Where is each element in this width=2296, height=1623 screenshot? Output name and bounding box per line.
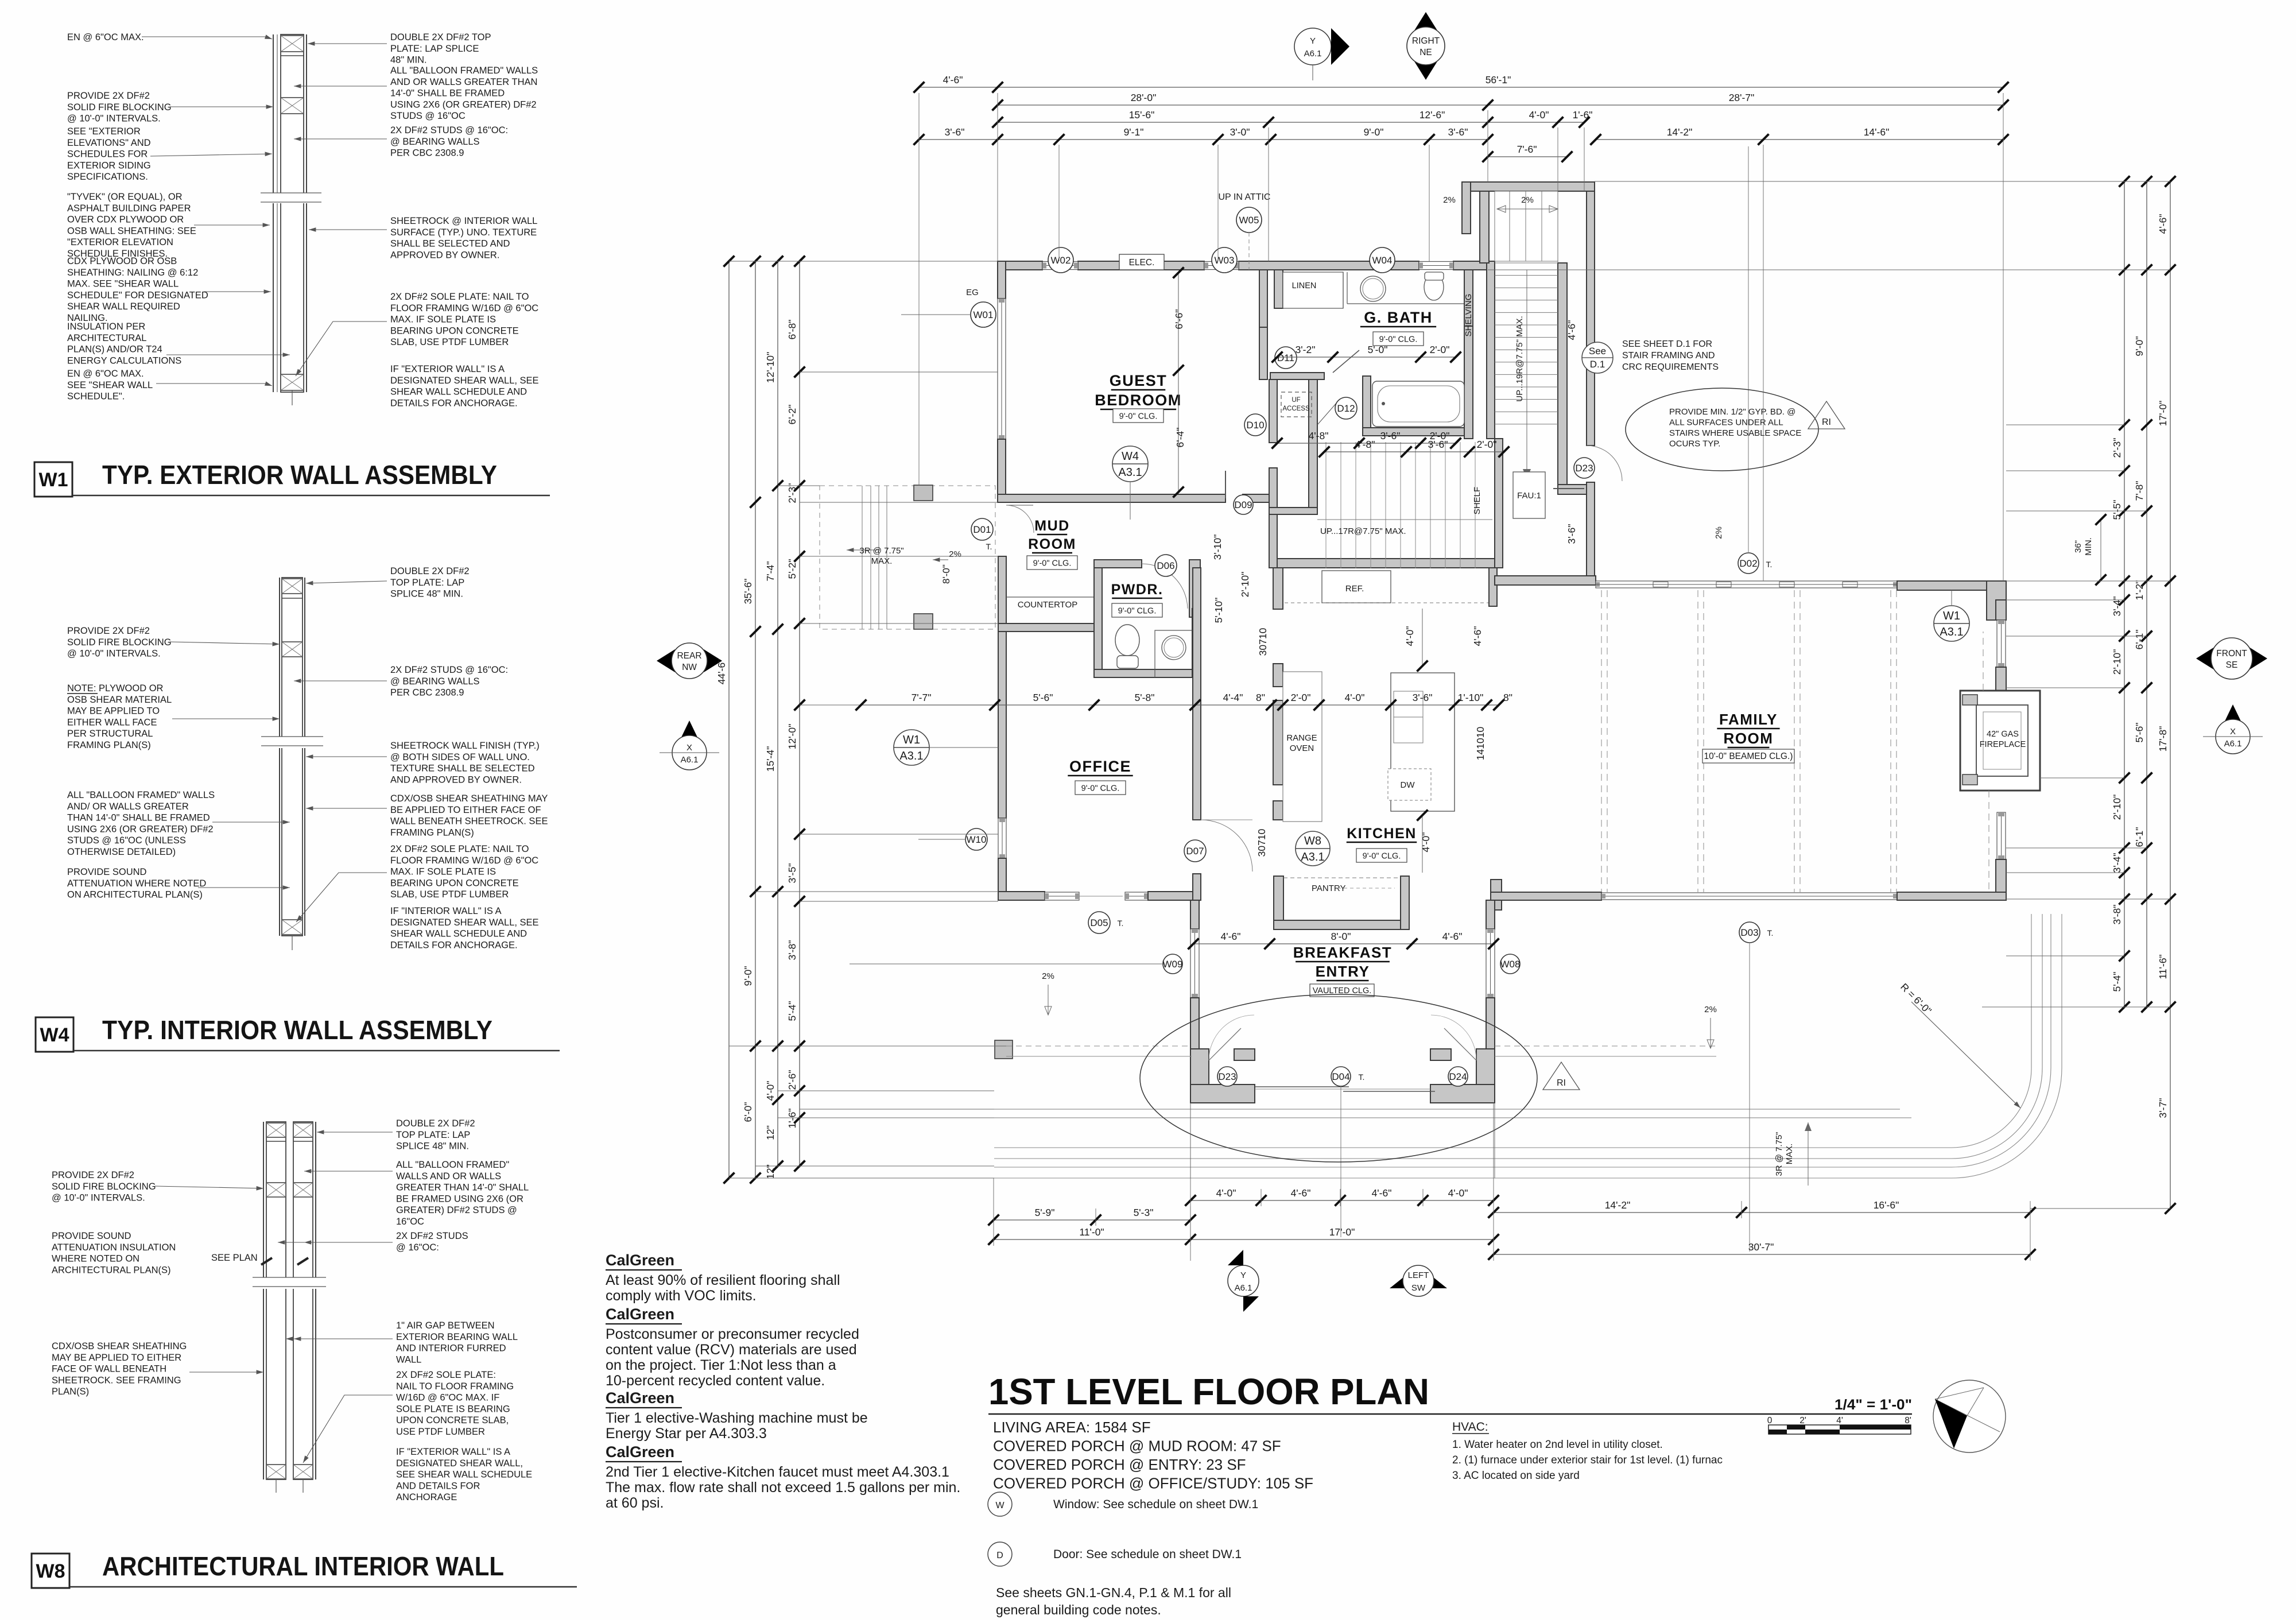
breakfast dim row bbox=[1193, 943, 1494, 944]
office west wall bbox=[998, 632, 1006, 818]
tub bbox=[1372, 381, 1464, 427]
left extension lines bbox=[729, 261, 998, 262]
svg-text:3'-0": 3'-0" bbox=[1230, 126, 1250, 138]
window W02 bbox=[1042, 262, 1078, 270]
svg-text:5'-4": 5'-4" bbox=[786, 1001, 798, 1021]
svg-text:COUNTERTOP: COUNTERTOP bbox=[1018, 600, 1077, 610]
svg-text:RI: RI bbox=[1822, 417, 1831, 427]
svg-text:2'-3": 2'-3" bbox=[786, 483, 798, 503]
svg-text:FAMILY: FAMILY bbox=[1719, 711, 1778, 728]
W4 top plates bbox=[282, 579, 302, 594]
RI triangle upper bbox=[1808, 401, 1845, 429]
svg-text:10'-0" BEAMED CLG.): 10'-0" BEAMED CLG.) bbox=[1704, 752, 1793, 761]
door tag D05 bbox=[1088, 912, 1110, 933]
svg-text:RI: RI bbox=[1557, 1078, 1566, 1088]
porch steps with curve bbox=[994, 914, 2031, 1148]
window W06 bbox=[1997, 620, 2006, 667]
svg-text:W03: W03 bbox=[1215, 255, 1235, 266]
svg-text:3'-4": 3'-4" bbox=[2111, 596, 2123, 617]
svg-text:6'-8": 6'-8" bbox=[786, 320, 798, 340]
svg-text:Y: Y bbox=[1310, 36, 1316, 46]
door D07 swing bbox=[1201, 820, 1252, 871]
svg-text:A6.1: A6.1 bbox=[1235, 1283, 1252, 1293]
svg-text:ENTRY: ENTRY bbox=[1316, 963, 1370, 980]
svg-text:1'-6": 1'-6" bbox=[786, 1109, 798, 1129]
svg-text:7'-4": 7'-4" bbox=[765, 561, 776, 582]
svg-text:X: X bbox=[687, 743, 692, 753]
svg-text:EN @ 6"OC MAX.: EN @ 6"OC MAX. bbox=[67, 32, 144, 42]
top dimension row 1 bbox=[919, 87, 2003, 88]
mud porch posts bbox=[914, 485, 933, 501]
detail W8 double wall strips bbox=[263, 1122, 316, 1479]
svg-text:4'-0": 4'-0" bbox=[1448, 1187, 1468, 1199]
svg-text:5'-9": 5'-9" bbox=[1035, 1207, 1055, 1218]
linen closet bbox=[1274, 270, 1283, 308]
svg-text:Door: See schedule on sheet DW: Door: See schedule on sheet DW.1 bbox=[1053, 1548, 1242, 1561]
svg-text:D09: D09 bbox=[1234, 499, 1252, 510]
breakfast east wall bbox=[1486, 900, 1495, 929]
pwdr toilet bbox=[1115, 625, 1139, 656]
svg-text:4'-6": 4'-6" bbox=[1221, 931, 1241, 942]
svg-text:A6.1: A6.1 bbox=[1304, 49, 1322, 59]
W4 title bbox=[36, 1017, 73, 1052]
stair lower flight risers bbox=[1325, 442, 1327, 568]
svg-text:W1: W1 bbox=[1943, 610, 1960, 622]
kitchen island bbox=[1391, 673, 1455, 811]
svg-text:3'-6": 3'-6" bbox=[945, 126, 965, 138]
svg-text:2%: 2% bbox=[1443, 195, 1456, 205]
svg-text:W01: W01 bbox=[974, 309, 994, 320]
svg-text:ACCESS: ACCESS bbox=[1282, 405, 1310, 412]
svg-text:SEE "EXTERIORELEVATIONS" ANDSC: SEE "EXTERIORELEVATIONS" ANDSCHEDULES FO… bbox=[67, 126, 151, 182]
door D04 sliding bbox=[1255, 1086, 1349, 1087]
right extension lines bbox=[1595, 181, 2170, 182]
svg-text:9'-0": 9'-0" bbox=[742, 966, 754, 986]
svg-text:UF: UF bbox=[1291, 397, 1300, 404]
section marker X A6.1 left bbox=[660, 721, 719, 770]
svg-text:KITCHEN: KITCHEN bbox=[1347, 826, 1417, 842]
top dimension row 4 right bbox=[1596, 139, 2003, 140]
svg-text:14'-2": 14'-2" bbox=[1667, 126, 1693, 138]
mud room south wall bbox=[998, 623, 1102, 632]
kitchen west wall bbox=[1273, 568, 1283, 609]
svg-text:1/4" = 1'-0": 1/4" = 1'-0" bbox=[1835, 1397, 1912, 1413]
svg-text:W8: W8 bbox=[36, 1560, 65, 1582]
FAU closet bbox=[1513, 472, 1545, 518]
svg-text:See: See bbox=[1589, 346, 1606, 357]
kitchen dim row bbox=[861, 704, 1499, 706]
right dimension columns bbox=[2124, 181, 2125, 1007]
svg-text:2%: 2% bbox=[1521, 195, 1534, 205]
svg-text:14'-6": 14'-6" bbox=[1864, 126, 1890, 138]
svg-text:D23: D23 bbox=[1575, 463, 1593, 474]
window W03 bbox=[1204, 262, 1239, 270]
svg-text:CalGreen: CalGreen bbox=[606, 1306, 674, 1323]
svg-text:T.: T. bbox=[986, 542, 992, 551]
svg-text:7'-8": 7'-8" bbox=[2134, 481, 2145, 501]
svg-text:9'-1": 9'-1" bbox=[1124, 126, 1144, 138]
svg-text:6'-1": 6'-1" bbox=[2134, 630, 2145, 650]
svg-text:W09: W09 bbox=[1163, 959, 1183, 970]
family room north window mullions bbox=[1653, 582, 1668, 587]
door D06 swing bbox=[1142, 564, 1188, 609]
svg-text:7'-6": 7'-6" bbox=[1517, 144, 1537, 155]
svg-text:ROOM: ROOM bbox=[1028, 536, 1076, 552]
W8 fire blocking bbox=[266, 1183, 286, 1197]
svg-text:NE: NE bbox=[1420, 48, 1432, 57]
svg-text:W04: W04 bbox=[1372, 255, 1393, 266]
svg-text:2'-0": 2'-0" bbox=[1477, 439, 1497, 450]
svg-text:17'-8": 17'-8" bbox=[2157, 726, 2169, 752]
svg-text:8': 8' bbox=[1905, 1416, 1911, 1426]
svg-text:42" GAS: 42" GAS bbox=[1987, 730, 2019, 739]
section marker Y A6.1 top bbox=[1294, 28, 1349, 80]
svg-text:141010: 141010 bbox=[1475, 727, 1486, 761]
svg-text:REAR: REAR bbox=[677, 651, 701, 661]
svg-text:MIN.: MIN. bbox=[2084, 537, 2093, 556]
svg-text:3'-2": 3'-2" bbox=[1296, 344, 1316, 355]
interior dim rows bath bbox=[1277, 357, 1456, 358]
svg-text:W08: W08 bbox=[1500, 959, 1521, 970]
svg-text:3'-6": 3'-6" bbox=[1448, 126, 1468, 138]
svg-text:2%: 2% bbox=[949, 549, 961, 559]
svg-text:7'-7": 7'-7" bbox=[912, 692, 932, 703]
svg-text:56'-1": 56'-1" bbox=[1486, 74, 1511, 86]
nook top wall bbox=[1495, 576, 1596, 585]
svg-text:DOUBLE 2X DF#2TOP PLATE: LAPSP: DOUBLE 2X DF#2TOP PLATE: LAPSPLICE 48" M… bbox=[390, 566, 470, 599]
W4 sole plate bbox=[282, 920, 302, 935]
svg-text:2%: 2% bbox=[1714, 526, 1724, 539]
svg-text:15'-4": 15'-4" bbox=[765, 746, 776, 772]
svg-text:0: 0 bbox=[1767, 1416, 1773, 1426]
door tag D10 bbox=[1244, 414, 1266, 436]
tub alcove walls bbox=[1363, 376, 1371, 436]
svg-text:3'-10": 3'-10" bbox=[1212, 534, 1223, 560]
svg-text:REF.: REF. bbox=[1345, 584, 1364, 594]
svg-text:3'-7": 3'-7" bbox=[2157, 1098, 2169, 1118]
svg-text:11'-0": 11'-0" bbox=[1079, 1226, 1104, 1238]
svg-text:4'-6": 4'-6" bbox=[1372, 1187, 1392, 1199]
svg-text:5'-6": 5'-6" bbox=[2134, 723, 2145, 743]
svg-text:5'-5": 5'-5" bbox=[2111, 500, 2123, 520]
svg-text:6'-1": 6'-1" bbox=[2134, 827, 2145, 847]
svg-text:4'-6": 4'-6" bbox=[1291, 1187, 1311, 1199]
svg-text:2'-10": 2'-10" bbox=[1239, 572, 1251, 598]
svg-text:MUD: MUD bbox=[1034, 518, 1069, 534]
front porch slab lines bbox=[994, 1109, 1900, 1110]
family room south wall bbox=[1491, 892, 1601, 900]
svg-text:9'-0" CLG.: 9'-0" CLG. bbox=[1363, 852, 1401, 861]
legend window tag bbox=[988, 1492, 1012, 1516]
svg-text:HVAC:: HVAC: bbox=[1452, 1420, 1488, 1434]
svg-text:9'-0" CLG.: 9'-0" CLG. bbox=[1379, 335, 1418, 344]
svg-text:PWDR.: PWDR. bbox=[1111, 582, 1163, 598]
svg-text:W02: W02 bbox=[1051, 255, 1071, 266]
svg-text:1'-6": 1'-6" bbox=[1573, 109, 1593, 121]
svg-text:3'-6": 3'-6" bbox=[1428, 439, 1448, 450]
window W04 bbox=[1419, 262, 1453, 270]
view marker REAR NW bbox=[657, 643, 722, 679]
door tag D06 bbox=[1155, 555, 1177, 576]
svg-text:4'-6": 4'-6" bbox=[943, 74, 963, 86]
svg-text:W10: W10 bbox=[967, 834, 987, 845]
svg-text:FAU:1: FAU:1 bbox=[1517, 491, 1541, 501]
door tag D23 stair bbox=[1574, 458, 1595, 478]
door D05 gap bbox=[1079, 896, 1123, 897]
svg-text:T.: T. bbox=[1766, 560, 1773, 569]
svg-text:A3.1: A3.1 bbox=[1301, 851, 1324, 863]
svg-text:17'-0": 17'-0" bbox=[1329, 1226, 1355, 1238]
svg-text:5'-6": 5'-6" bbox=[1033, 692, 1053, 703]
svg-text:TYP. INTERIOR WALL ASSEMBLY: TYP. INTERIOR WALL ASSEMBLY bbox=[102, 1015, 492, 1045]
svg-text:LEFT: LEFT bbox=[1408, 1270, 1429, 1280]
wall type W4 A3.1 bbox=[1112, 446, 1148, 482]
door D11 leaf bbox=[1333, 350, 1359, 373]
svg-text:D24: D24 bbox=[1449, 1071, 1467, 1082]
window tag W04 bbox=[1370, 247, 1395, 273]
svg-text:2%: 2% bbox=[1704, 1005, 1717, 1014]
svg-text:DOUBLE 2X DF#2TOP PLATE: LAPSP: DOUBLE 2X DF#2TOP PLATE: LAPSPLICE 48" M… bbox=[396, 1118, 475, 1152]
svg-text:SW: SW bbox=[1411, 1283, 1426, 1293]
entry cloud bbox=[1140, 994, 1537, 1162]
W4 fire blocking bbox=[282, 642, 302, 657]
svg-text:D03: D03 bbox=[1740, 927, 1758, 938]
top dimension row 3 bbox=[998, 122, 1584, 123]
bath vanity bbox=[1347, 272, 1348, 304]
stair upper landing bbox=[1495, 191, 1558, 261]
svg-text:W4: W4 bbox=[40, 1024, 69, 1046]
svg-text:ELEC.: ELEC. bbox=[1129, 258, 1155, 268]
svg-text:D: D bbox=[996, 1551, 1003, 1560]
breakfast west wall bbox=[1190, 900, 1199, 929]
svg-text:UP IN ATTIC: UP IN ATTIC bbox=[1219, 192, 1271, 202]
wall type W8 A3.1 kitchen bbox=[1296, 831, 1330, 866]
porch pier edge lines bbox=[1190, 1103, 1191, 1178]
svg-text:15'-6": 15'-6" bbox=[1129, 109, 1155, 121]
svg-text:4'-4": 4'-4" bbox=[1223, 692, 1243, 703]
porch post at office corner bbox=[995, 1040, 1013, 1059]
office east wall bbox=[1193, 568, 1201, 820]
plan north exterior wall bbox=[998, 261, 1042, 270]
svg-text:SEE PLAN: SEE PLAN bbox=[211, 1253, 258, 1263]
door D24 entry swing bbox=[1444, 1028, 1476, 1060]
svg-text:11'-6": 11'-6" bbox=[2157, 954, 2169, 979]
svg-text:W05: W05 bbox=[1239, 215, 1259, 226]
svg-text:EG: EG bbox=[966, 288, 979, 297]
svg-text:9'-0": 9'-0" bbox=[1364, 126, 1384, 138]
plan west exterior wall upper bbox=[998, 261, 1006, 299]
svg-text:4'-6": 4'-6" bbox=[2157, 214, 2169, 234]
svg-text:A6.1: A6.1 bbox=[681, 755, 699, 765]
bath sink bbox=[1360, 276, 1386, 301]
svg-text:OVEN: OVEN bbox=[1290, 743, 1314, 753]
door tag D12 bbox=[1335, 397, 1357, 419]
entry pier right bbox=[1476, 1049, 1495, 1103]
door tag D01 bbox=[971, 518, 993, 540]
svg-text:1ST LEVEL FLOOR PLAN: 1ST LEVEL FLOOR PLAN bbox=[988, 1371, 1429, 1412]
svg-text:30710: 30710 bbox=[1257, 627, 1269, 656]
W1 section break bbox=[261, 193, 321, 203]
view marker LEFT SW bbox=[1390, 1265, 1447, 1296]
left dimension columns bbox=[728, 261, 730, 1178]
door tag D23 entry bbox=[1217, 1067, 1237, 1086]
mud room countertop bbox=[1006, 596, 1094, 598]
svg-text:LINEN: LINEN bbox=[1292, 281, 1317, 290]
svg-text:3'-8": 3'-8" bbox=[786, 940, 798, 960]
wall type W1 A3.1 family bbox=[1934, 606, 1969, 641]
svg-text:D05: D05 bbox=[1090, 917, 1108, 928]
svg-text:T.: T. bbox=[1767, 928, 1774, 938]
svg-text:44'-6": 44'-6" bbox=[716, 659, 727, 685]
view marker FRONT SE bbox=[2196, 638, 2267, 679]
svg-text:16'-6": 16'-6" bbox=[1874, 1199, 1899, 1211]
top dimension row 4 bbox=[919, 139, 1488, 140]
door tag D11 bbox=[1275, 347, 1297, 369]
svg-text:5'-0": 5'-0" bbox=[1368, 344, 1388, 355]
gyp board note cloud bbox=[1626, 388, 1818, 471]
window W07 bbox=[1997, 812, 2006, 859]
svg-text:A3.1: A3.1 bbox=[899, 750, 923, 762]
top dimension 7-6 bbox=[1488, 156, 1567, 157]
svg-text:2'-10": 2'-10" bbox=[2111, 649, 2123, 675]
svg-text:TYP. EXTERIOR WALL ASSEMBLY: TYP. EXTERIOR WALL ASSEMBLY bbox=[102, 460, 497, 490]
svg-text:6'-0": 6'-0" bbox=[742, 1102, 754, 1122]
svg-text:28'-0": 28'-0" bbox=[1131, 92, 1157, 103]
window tag W09 bbox=[1163, 954, 1183, 974]
svg-text:D04: D04 bbox=[1332, 1071, 1349, 1082]
family room ceiling beams dashed bbox=[1601, 590, 1602, 892]
svg-text:W1: W1 bbox=[39, 469, 68, 491]
door D09 gap leaf bbox=[1225, 471, 1226, 498]
svg-text:SE: SE bbox=[2226, 660, 2238, 670]
svg-text:4'-0": 4'-0" bbox=[1216, 1187, 1236, 1199]
svg-text:5'-8": 5'-8" bbox=[1135, 692, 1155, 703]
svg-text:3'-8": 3'-8" bbox=[2111, 905, 2123, 925]
detail W4 wall section strip bbox=[280, 578, 305, 936]
W8 section break bbox=[253, 1277, 324, 1289]
window tag W03 bbox=[1212, 247, 1237, 273]
svg-text:BEDROOM: BEDROOM bbox=[1095, 392, 1182, 409]
svg-text:CalGreen: CalGreen bbox=[606, 1252, 674, 1269]
svg-text:12'-10": 12'-10" bbox=[765, 352, 776, 383]
pwdr sink bbox=[1155, 630, 1200, 677]
office south wall bbox=[998, 892, 1045, 900]
svg-text:SEE SHEET D.1 FORSTAIR FRAMING: SEE SHEET D.1 FORSTAIR FRAMING ANDCRC RE… bbox=[1622, 339, 1719, 372]
svg-text:4'-0": 4'-0" bbox=[1529, 109, 1549, 121]
svg-text:D06: D06 bbox=[1157, 560, 1174, 571]
svg-text:30710: 30710 bbox=[1256, 828, 1267, 857]
family room west posts bbox=[1491, 880, 1502, 910]
door tag D24 bbox=[1448, 1067, 1468, 1086]
svg-text:8'-0": 8'-0" bbox=[941, 564, 952, 584]
svg-text:D01: D01 bbox=[973, 524, 991, 535]
svg-text:36": 36" bbox=[2073, 540, 2083, 553]
svg-text:ROOM: ROOM bbox=[1724, 730, 1774, 747]
bedroom interior dim line bbox=[1178, 273, 1179, 492]
view marker RIGHT NE bbox=[1407, 12, 1445, 80]
door D23 stair closet swing bbox=[1587, 446, 1622, 481]
svg-text:2'-3": 2'-3" bbox=[2111, 438, 2123, 458]
stair treads bbox=[1495, 262, 1558, 264]
svg-text:3R @ 7.75": 3R @ 7.75" bbox=[1774, 1132, 1784, 1176]
bath toilet bbox=[1424, 274, 1444, 300]
svg-text:8'-0": 8'-0" bbox=[1331, 931, 1351, 942]
svg-text:2'-10": 2'-10" bbox=[2111, 795, 2123, 820]
svg-text:6'-6": 6'-6" bbox=[1173, 309, 1185, 330]
section marker Y A6.1 bottom bbox=[1228, 1250, 1259, 1312]
svg-text:4'-0": 4'-0" bbox=[1345, 692, 1365, 703]
guest bedroom south wall bbox=[998, 494, 1225, 502]
top dimension row 2 bbox=[998, 104, 2003, 106]
legend door tag bbox=[988, 1542, 1012, 1566]
window tag W10 bbox=[965, 828, 987, 850]
door tag D02 bbox=[1738, 553, 1759, 574]
svg-text:5'-3": 5'-3" bbox=[1134, 1207, 1154, 1218]
window W01 egress bbox=[998, 299, 1006, 439]
svg-text:2%: 2% bbox=[1042, 971, 1054, 981]
RI triangle entry bbox=[1543, 1062, 1580, 1090]
svg-text:4'-6": 4'-6" bbox=[1566, 320, 1577, 340]
family room north wall bbox=[1596, 581, 1897, 588]
entry pier left bbox=[1190, 1049, 1209, 1103]
svg-text:NW: NW bbox=[682, 663, 697, 672]
svg-text:W1: W1 bbox=[903, 734, 920, 746]
svg-text:3'-6": 3'-6" bbox=[1380, 430, 1401, 441]
svg-text:T.: T. bbox=[1359, 1072, 1365, 1082]
door tag D07 bbox=[1184, 840, 1206, 862]
bedroom east wall bbox=[1259, 270, 1267, 327]
svg-text:5'-4": 5'-4" bbox=[2111, 972, 2123, 992]
svg-text:GUEST: GUEST bbox=[1110, 372, 1168, 389]
svg-text:A3.1: A3.1 bbox=[1118, 466, 1142, 479]
svg-text:D07: D07 bbox=[1186, 846, 1204, 857]
stair up arrow bbox=[1526, 270, 1527, 479]
svg-text:UP...17R@7.75" MAX.: UP...17R@7.75" MAX. bbox=[1320, 526, 1406, 536]
door tag D03 bbox=[1739, 922, 1760, 943]
stair block outer walls bbox=[1462, 182, 1595, 191]
svg-text:D02: D02 bbox=[1739, 558, 1757, 569]
W1 fire blocking bbox=[281, 98, 304, 114]
svg-text:5'-2": 5'-2" bbox=[786, 559, 798, 579]
window tag W08 bbox=[1500, 954, 1521, 974]
svg-text:Window: See schedule on sheet: Window: See schedule on sheet DW.1 bbox=[1053, 1498, 1258, 1511]
svg-text:17'-0": 17'-0" bbox=[2157, 401, 2169, 427]
bottom dim row B right bbox=[1494, 1212, 2030, 1213]
uf access dashed bbox=[1281, 392, 1312, 417]
bath hall walls bbox=[1270, 373, 1324, 379]
svg-text:ARCHITECTURAL INTERIOR WALL: ARCHITECTURAL INTERIOR WALL bbox=[102, 1551, 504, 1581]
fireplace 42 gas bbox=[1960, 691, 2040, 791]
svg-text:CalGreen: CalGreen bbox=[606, 1443, 674, 1461]
svg-text:3'-4": 3'-4" bbox=[2111, 853, 2123, 873]
kitchen ref bbox=[1322, 571, 1391, 603]
svg-text:A6.1: A6.1 bbox=[2224, 739, 2242, 749]
W1 top plates bbox=[281, 36, 304, 52]
svg-text:MAX.: MAX. bbox=[871, 556, 893, 566]
door tag D04 bbox=[1331, 1067, 1351, 1086]
bottom dim row 30-7 bbox=[1494, 1254, 2030, 1255]
svg-text:D10: D10 bbox=[1246, 420, 1264, 431]
svg-text:9'-0" CLG.: 9'-0" CLG. bbox=[1118, 607, 1157, 616]
svg-text:12": 12" bbox=[765, 1125, 776, 1140]
svg-text:Y: Y bbox=[1240, 1270, 1246, 1280]
svg-text:4'-8": 4'-8" bbox=[1355, 439, 1375, 450]
svg-text:4': 4' bbox=[1836, 1416, 1843, 1426]
door D12 leaf bbox=[1317, 402, 1337, 425]
mud room porch bbox=[820, 486, 995, 629]
svg-text:3'-5": 3'-5" bbox=[786, 863, 798, 884]
svg-text:4'-0": 4'-0" bbox=[1420, 832, 1432, 853]
